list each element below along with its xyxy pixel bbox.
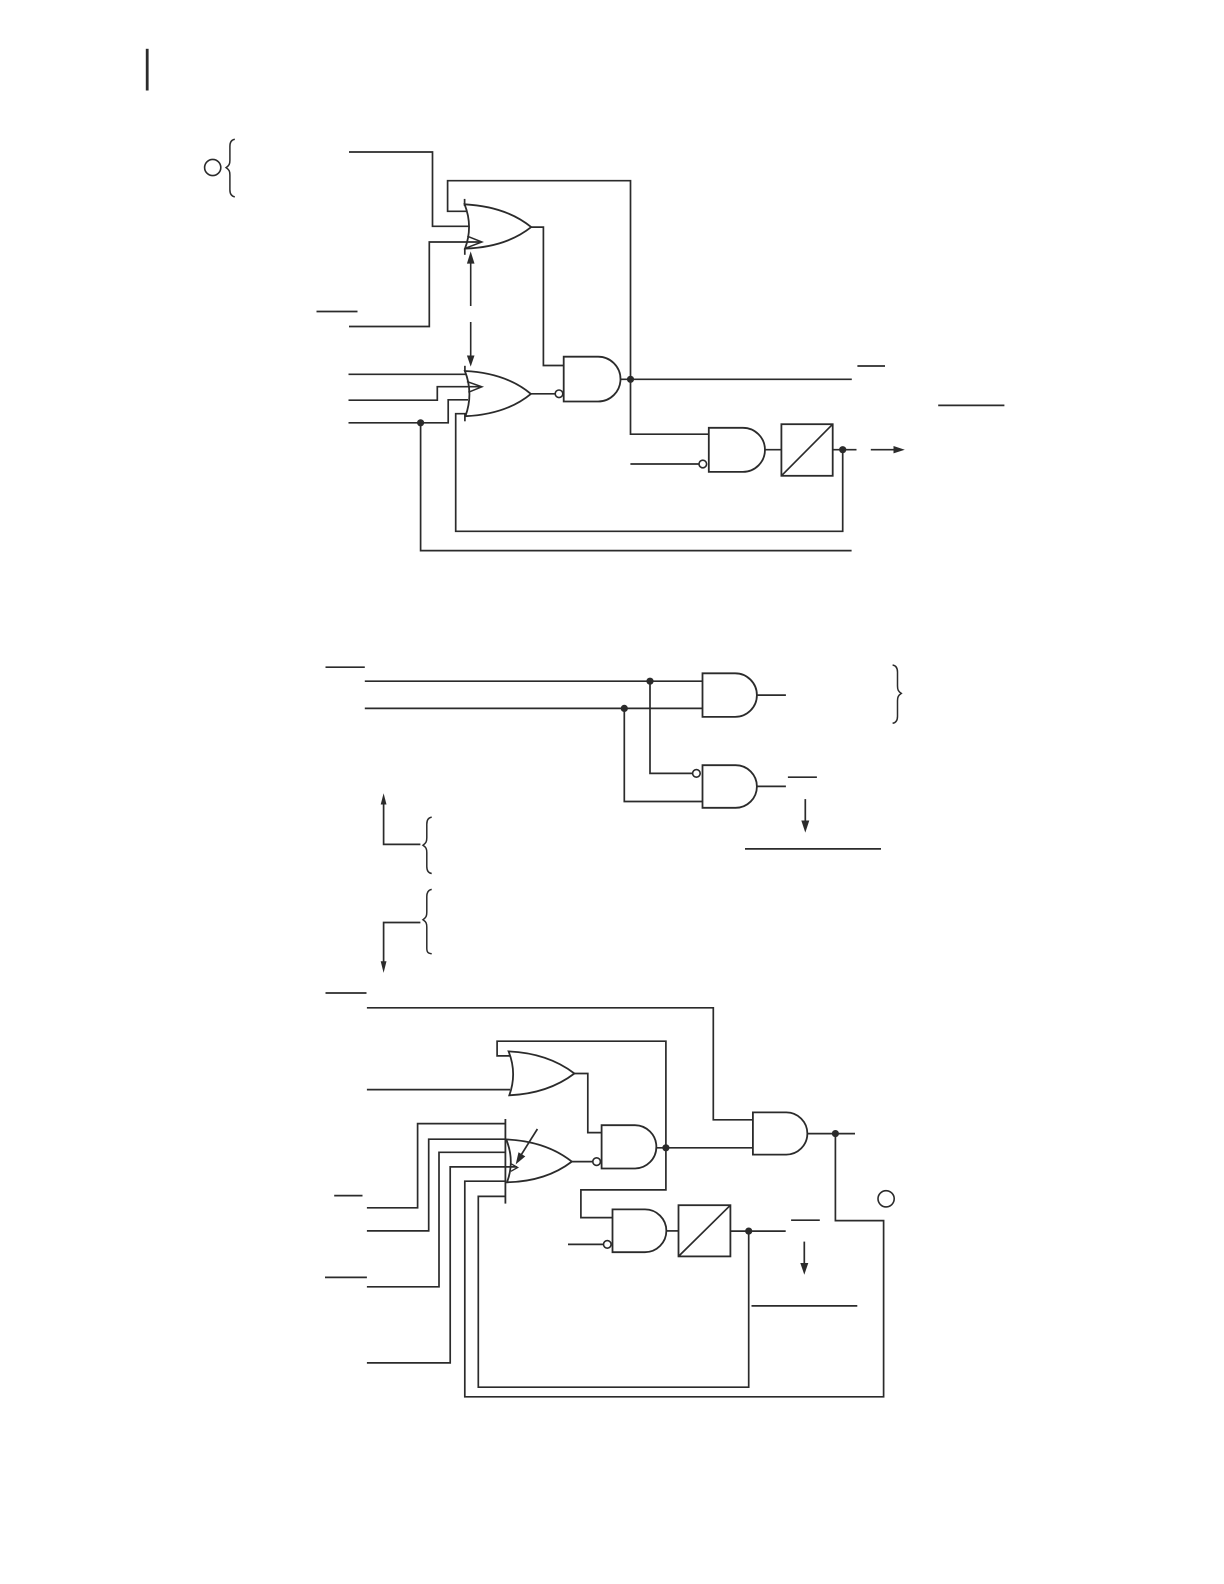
blank label line L5 <box>788 776 817 778</box>
node: junction on middle input 1 <box>646 678 653 685</box>
or-gate G1 <box>465 204 532 248</box>
G1 top input tick <box>464 199 466 206</box>
blank label line L7 <box>334 1195 362 1197</box>
node: junction at NAND U6b output on feedback rail <box>662 1144 669 1151</box>
node: junction at D2 output <box>745 1228 752 1235</box>
blank label underline (middle) <box>745 848 881 850</box>
wire: feedback from delay box D2 output to OR G6 input 6 <box>478 1196 748 1387</box>
or-gate G5 <box>509 1051 575 1095</box>
wire: OR G6 dynamic input 4 <box>367 1167 517 1363</box>
wire: feedback from AND U7 output to OR G6 input 5 <box>465 1134 884 1397</box>
node: junction at U7 output <box>832 1130 839 1137</box>
nand U6b <box>602 1125 657 1168</box>
G2 dynamic input triangle <box>467 382 482 393</box>
or-gate G6 <box>506 1139 572 1182</box>
wire: stub from junction to right (unterminated) <box>421 423 852 551</box>
wire: OR G2 input C via staircase <box>349 400 469 423</box>
inverter bubble at U8 lower input <box>604 1241 612 1249</box>
G2 top input tick <box>464 366 466 372</box>
node: junction at D1 output <box>839 446 846 453</box>
wire: OR G2 output to inverting input of NAND U3 <box>531 393 555 395</box>
D1 diagonal <box>781 424 832 476</box>
wire: OR G1 output to NAND U3 top input <box>531 227 564 365</box>
and-gate U4 <box>709 428 765 472</box>
wire: OR G6 input 2 <box>367 1139 506 1231</box>
annotation arrow pointing at G6 dynamic input <box>516 1129 538 1164</box>
wire: D2 output <box>730 1230 785 1232</box>
wire: U5 output <box>757 694 786 696</box>
connector circle B (bottom right) <box>878 1191 894 1207</box>
delay box D2 <box>679 1205 731 1256</box>
wire: junction 1 down to inverting input of AND U6 <box>650 681 693 773</box>
G1 bottom input tick <box>464 248 466 255</box>
or-gate G2 <box>465 371 531 416</box>
dashed correspondence arrow between G1 and G2 <box>467 251 475 366</box>
flow arrow down (bottom) <box>800 1242 808 1275</box>
wire: OR G6 input 1 <box>367 1124 506 1208</box>
blank label line L2 <box>857 365 885 367</box>
brace right (output group marker) <box>893 665 902 723</box>
node: junction on input C <box>417 419 424 426</box>
G1 dynamic input triangle <box>466 236 482 248</box>
blank label underline (bottom) <box>752 1305 858 1307</box>
wire: U8 output to delay box D2 <box>666 1230 678 1232</box>
down arrow with bracket group 2 <box>381 923 421 973</box>
wire: U4 output to delay box D1 <box>765 449 781 451</box>
wire: feedback from NAND U3 output up into OR G1 top input, and down to AND U4 <box>448 181 709 435</box>
wire: middle input 1 to AND U5 <box>365 680 703 682</box>
flow arrow down (middle) <box>801 799 809 833</box>
inverter bubble at U4 lower input <box>699 460 707 468</box>
wire: junction 2 down to lower input of AND U6 <box>624 708 702 801</box>
D2 diagonal <box>679 1205 731 1256</box>
wire: OR G2 input A <box>349 373 467 375</box>
or-gate G6 input extension bar <box>504 1119 506 1204</box>
brace left group 1 <box>423 817 432 873</box>
blank label line L1 <box>317 311 358 313</box>
nand U8 <box>613 1209 667 1252</box>
brace left group 2 <box>423 889 432 953</box>
delay box D1 <box>781 424 832 476</box>
blank label line L3 <box>938 404 1004 406</box>
G6 dynamic input triangle <box>511 1164 518 1172</box>
wire: OR G2 dynamic input via staircase <box>349 387 481 401</box>
wire: free input to AND U4 inverting input <box>630 463 699 465</box>
wire: OR G6 input 3 <box>367 1152 506 1287</box>
wire: U7 output <box>807 1133 855 1135</box>
inverter bubble at U6 top input <box>693 770 701 778</box>
and-gate U5 <box>703 673 757 717</box>
wire: feedback into OR G5 top input and down to NAND U8 <box>497 1041 666 1217</box>
wire: input 1 to OR G1 <box>349 152 469 226</box>
brace left top (input group marker) <box>226 139 235 197</box>
page margin mark <box>146 49 149 91</box>
and-gate U6 <box>703 765 757 808</box>
output flow arrow (top circuit) <box>871 446 905 453</box>
inverter bubble at U6b lower input <box>593 1158 601 1166</box>
wire: feedback from delay box D1 output to OR G2 bottom input <box>456 414 843 532</box>
connector circle A (top left) <box>205 159 221 175</box>
wire: bottom input 2 to OR G5 <box>367 1089 510 1091</box>
inverter bubble at U3 lower input <box>555 390 563 398</box>
wire: middle input 2 to AND U5 <box>365 707 703 709</box>
wire: free input to NAND U8 inverting input <box>568 1243 603 1245</box>
G2 bottom input tick <box>464 414 466 421</box>
wire: G5 output to NAND U6b top input <box>574 1074 601 1133</box>
blank label line L9 <box>791 1219 820 1221</box>
wire: dynamic input to OR G1 triangle <box>349 242 481 327</box>
wire: U6 output <box>757 785 786 787</box>
blank label line L6 <box>326 992 367 994</box>
and-gate U7 <box>753 1112 807 1154</box>
wire: U3 output run to the right <box>621 378 852 380</box>
node: junction at NAND U3 output <box>627 376 634 383</box>
blank label line L8 <box>325 1276 367 1278</box>
wire: G6 output to inverting input of NAND U6b <box>572 1161 593 1163</box>
blank label line L4 <box>326 666 365 668</box>
wire: bottom input 1 to AND U7 top <box>367 1008 753 1120</box>
wire: D1 output <box>833 449 857 451</box>
up arrow with bracket group 1 <box>381 793 421 844</box>
wire: U6b output to AND U7 lower input <box>656 1147 753 1149</box>
nand U3 (AND body with input bubble) <box>564 357 621 402</box>
node: junction on middle input 2 <box>621 705 628 712</box>
